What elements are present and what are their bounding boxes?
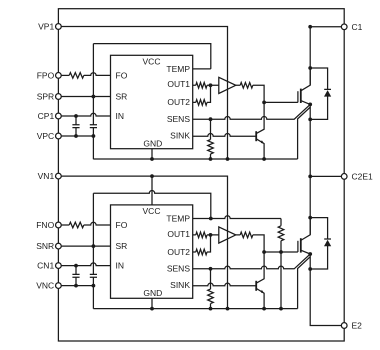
junction diode cathode row [308,66,312,70]
svg-text:VCC: VCC [143,206,161,216]
wire gate node to IGBT gate [264,101,298,103]
svg-text:OUT2: OUT2 [167,247,190,257]
IGBT Q2 gate bar [297,241,299,252]
gate-drive IC U2 (lower channel) [111,205,193,298]
junction gate node [262,101,266,105]
junction GND stub / COM rail [150,307,154,311]
transistor Q sink (lower) base bar [255,281,257,291]
resistor gate feed R (lower) [278,219,284,253]
svg-text:TEMP: TEMP [166,64,190,74]
IGBT Q2 body bar [300,238,302,252]
wire SENS pin to emitter (hops over supply + gate verticals) [193,104,311,119]
wire SINK pin to BJT base (hops) [193,134,257,137]
wire TEMP pin to SR net (upper) [193,68,211,70]
svg-text:C2E1: C2E1 [352,171,374,181]
wire VP1 to COM rail [62,27,228,160]
svg-text:GND: GND [143,139,162,149]
wire FPO to resistor [62,74,70,76]
resistor (fault output series, lower) [69,222,84,228]
junction OUT1/OUT2 [209,233,213,237]
svg-text:SPR: SPR [37,92,54,102]
wire GND pin stub [151,298,153,308]
svg-text:SR: SR [116,241,128,251]
transistor Q sink emitter with arrow [256,139,264,159]
junction IN row / filter cap [74,264,78,268]
terminal SNR [56,243,62,249]
junction VPC row / cap1 [74,134,78,138]
svg-text:IN: IN [116,261,125,271]
wire FNO to resistor [62,224,70,226]
svg-text:CN1: CN1 [37,261,54,271]
IGBT Q2 collector lead [301,218,310,241]
junction gate node [262,250,266,254]
svg-text:OUT1: OUT1 [167,229,190,239]
svg-text:IN: IN [116,111,125,121]
wire collector to C1 [310,27,341,85]
IGBT Q1 gate bar [297,91,299,102]
transistor Q sink collector [256,252,264,283]
terminal SPR [56,94,62,100]
junction gate row / feed resistor (lower) [279,250,283,254]
svg-text:C1: C1 [352,22,363,32]
terminal VPC [56,133,62,139]
wire emitter rail down (upper) [309,104,311,176]
svg-text:VN1: VN1 [38,171,55,181]
svg-text:GND: GND [143,288,162,298]
junction diode anode row [308,118,312,122]
resistor (fault output series, upper) [69,73,84,79]
junction SR net [92,95,96,99]
svg-text:VPC: VPC [37,131,54,141]
terminal VNC [56,283,62,289]
terminal CP1 [56,113,62,119]
resistor OUT1 gate series (lower) [193,232,219,238]
junction IN row / filter cap [74,114,78,118]
IGBT Q1 emitter lead [301,101,310,105]
wire GND pin stub [151,149,153,159]
wire feed branch to COM rail (lower) [280,252,282,309]
wire VN1 to COM rail [62,176,228,309]
junction VCC stub / VN1 line [150,174,154,178]
terminal C2E1 [341,174,347,180]
svg-text:FPO: FPO [37,70,55,80]
junction VPC row / cap2 [92,284,96,288]
IC U2 pin labels [116,206,191,298]
package outline [58,9,344,341]
terminal VP1 [56,24,62,30]
resistor gate drive (upper) [236,83,264,103]
junction SENS row / sense resistor [209,267,213,271]
wire TEMP pin row extended to gate resistor (lower) [193,216,281,219]
junction VPC row / cap1 [74,284,78,288]
wire CP1 to IN pin (hop over SR net) [62,113,111,116]
capacitor SR filter C-b (lower) [90,274,97,277]
resistor current sense (lower) [208,269,214,309]
IGBT Q2 emitter lead [301,250,310,254]
svg-text:SENS: SENS [167,114,190,124]
svg-text:FO: FO [116,70,128,80]
wire gate node to IGBT gate [264,251,298,253]
junction GND stub / COM rail [150,157,154,161]
svg-text:SNR: SNR [36,241,54,251]
resistor OUT2 gate series (upper) [193,85,211,105]
wire SR net: vertical + top run to TEMP (lower) [93,190,210,308]
junction collector rail / C1 wire [308,25,312,29]
junction collector rail / C2E1 [308,175,312,179]
resistor OUT2 gate series (lower) [193,235,211,255]
junction SENS row / sense resistor [209,117,213,121]
svg-text:OUT2: OUT2 [167,97,190,107]
svg-text:VCC: VCC [143,56,161,66]
wire emitter rail down (lower) [310,254,341,326]
svg-text:SINK: SINK [170,131,190,141]
svg-text:E2: E2 [352,321,363,331]
wire resistor to FO pin (hop over SR net) [84,73,111,76]
wire collector rail from C2E1 junction down [309,176,311,234]
terminal C1 [341,24,347,30]
capacitor SR filter C-b (upper) [90,125,97,128]
junction IGBT emitter node [308,252,312,256]
svg-text:FO: FO [116,220,128,230]
IC U1 pin labels [116,56,191,148]
svg-text:CP1: CP1 [38,111,55,121]
gate-drive IC U1 (upper channel) [111,55,193,148]
svg-text:SENS: SENS [167,264,190,274]
wire COM rail (lower) [93,308,297,310]
diode freewheel D2 [310,218,331,269]
buffer amplifier (lower driver) [219,227,236,243]
terminal CN1 [56,263,62,269]
wire kelvin emitter return [298,107,311,159]
svg-text:VP1: VP1 [38,22,54,32]
terminal FPO [56,73,62,79]
terminal E2 [341,323,347,329]
svg-text:OUT1: OUT1 [167,79,190,89]
svg-text:VNC: VNC [36,281,54,291]
wire COM rail (upper) [93,158,297,160]
IGBT Q1 body bar [300,89,302,103]
junction OUT1/OUT2 [209,83,213,87]
wire VNC to cap bottoms [62,285,94,287]
junction SR net [92,244,96,248]
transistor Q sink (upper) base bar [255,131,257,141]
wire SNR to SR pin [62,245,111,247]
wire SPR to SR pin [62,96,111,98]
buffer amplifier (upper driver) [219,77,236,93]
junction VN1 wire / COM rail [226,307,230,311]
resistor OUT1 gate series (upper) [193,83,219,89]
wire C2E1 [310,175,341,177]
wire SENS pin to emitter (hops over supply + gate verticals) [193,254,311,269]
capacitor input filter C-a (upper) [72,116,79,136]
junction TEMP row (lower) [209,217,213,221]
junction VP1 wire / COM rail [226,157,230,161]
wire CN1 to IN pin (hop over SR net) [62,263,111,266]
junction IGBT emitter node [308,103,312,107]
wire resistor to FO pin (hop over SR net) [84,222,111,225]
junction diode anode row [308,267,312,271]
transistor Q sink emitter with arrow [256,288,264,308]
svg-text:SR: SR [116,91,128,101]
junction BJT emitter / COM rail [262,307,266,311]
wire kelvin emitter return [298,257,311,309]
resistor current sense (upper) [208,119,214,159]
wire SINK pin to BJT base (hops) [193,283,257,286]
svg-text:FNO: FNO [36,220,54,230]
junction sense resistor / COM rail [209,307,213,311]
capacitor input filter C-a (lower) [72,266,79,286]
resistor gate drive (lower) [236,232,264,252]
transistor Q sink collector [256,102,264,133]
wire VPC to cap bottoms [62,135,94,137]
terminal FNO [56,222,62,228]
terminal VN1 [56,173,62,179]
junction VPC row / cap2 [92,134,96,138]
diode freewheel D1 [310,68,331,119]
junction sense resistor / COM rail [209,157,213,161]
svg-text:TEMP: TEMP [166,213,190,223]
junction diode cathode row [308,216,312,220]
junction feed branch / COM rail (lower) [279,307,283,311]
svg-text:SINK: SINK [170,280,190,290]
junction BJT emitter / COM rail [262,157,266,161]
wire VCC stub to VN1 supply line (lower) [151,176,153,205]
wire SR net: vertical + top run to TEMP (upper) [93,44,210,160]
IGBT Q1 collector lead [301,68,310,91]
